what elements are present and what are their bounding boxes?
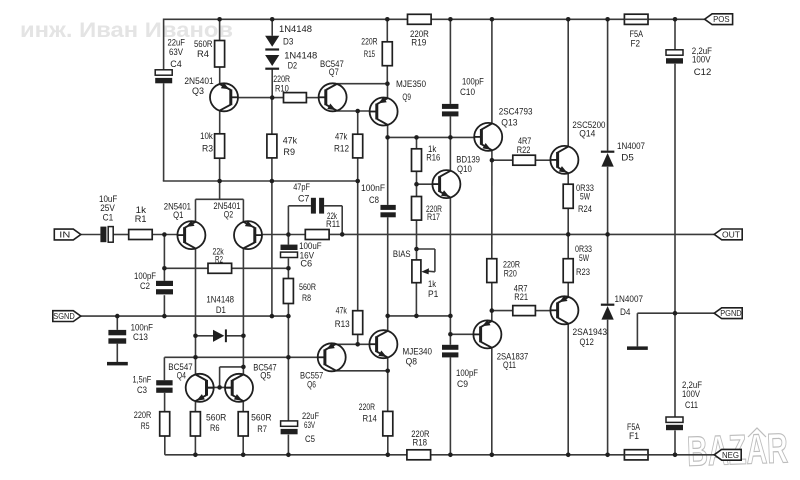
svg-text:R1: R1 bbox=[135, 214, 147, 225]
svg-text:F1: F1 bbox=[629, 431, 639, 442]
svg-text:2SC4793: 2SC4793 bbox=[499, 106, 533, 117]
svg-text:100pF: 100pF bbox=[462, 76, 484, 87]
svg-text:R24: R24 bbox=[578, 204, 592, 215]
svg-text:PGND: PGND bbox=[720, 308, 742, 318]
svg-text:1N4007: 1N4007 bbox=[617, 141, 645, 152]
svg-text:10k: 10k bbox=[200, 131, 213, 142]
svg-text:R16: R16 bbox=[426, 153, 440, 164]
svg-text:C1: C1 bbox=[103, 213, 114, 224]
svg-text:C6: C6 bbox=[300, 258, 312, 269]
svg-text:220R: 220R bbox=[361, 36, 377, 47]
svg-text:Q11: Q11 bbox=[503, 360, 516, 371]
svg-text:R19: R19 bbox=[411, 38, 426, 49]
svg-text:Q2: Q2 bbox=[224, 210, 233, 221]
svg-text:F2: F2 bbox=[631, 38, 641, 49]
svg-text:MJE350: MJE350 bbox=[396, 79, 426, 90]
svg-text:OUT: OUT bbox=[722, 229, 740, 239]
svg-text:Q6: Q6 bbox=[307, 379, 316, 390]
svg-text:C5: C5 bbox=[305, 434, 315, 445]
svg-text:D4: D4 bbox=[620, 307, 631, 318]
svg-text:220R: 220R bbox=[359, 402, 375, 413]
svg-text:R3: R3 bbox=[202, 143, 213, 154]
svg-text:47pF: 47pF bbox=[293, 182, 310, 193]
svg-text:R8: R8 bbox=[302, 293, 311, 304]
svg-text:Q1: Q1 bbox=[173, 210, 183, 221]
svg-text:C2: C2 bbox=[140, 281, 150, 292]
svg-text:Q3: Q3 bbox=[192, 86, 204, 97]
svg-text:POS: POS bbox=[713, 14, 730, 24]
svg-text:560R: 560R bbox=[251, 412, 272, 423]
svg-text:C12: C12 bbox=[694, 67, 712, 78]
svg-text:D5: D5 bbox=[621, 153, 634, 164]
svg-text:Q7: Q7 bbox=[329, 67, 339, 78]
svg-text:220R: 220R bbox=[134, 410, 152, 421]
svg-text:100V: 100V bbox=[692, 54, 711, 65]
svg-text:R12: R12 bbox=[334, 143, 349, 154]
svg-text:R18: R18 bbox=[413, 438, 428, 449]
svg-text:1N4148: 1N4148 bbox=[206, 294, 234, 305]
svg-text:D3: D3 bbox=[283, 36, 293, 47]
svg-text:Q4: Q4 bbox=[177, 371, 186, 382]
svg-text:NEG: NEG bbox=[722, 450, 739, 460]
svg-text:C13: C13 bbox=[133, 332, 148, 343]
svg-text:5W: 5W bbox=[579, 253, 589, 264]
svg-text:C10: C10 bbox=[460, 87, 475, 98]
svg-text:Q12: Q12 bbox=[580, 337, 594, 348]
svg-text:47k: 47k bbox=[283, 136, 298, 147]
svg-text:D1: D1 bbox=[216, 305, 226, 316]
svg-text:C7: C7 bbox=[298, 193, 309, 204]
svg-text:R9: R9 bbox=[283, 147, 295, 158]
svg-text:R23: R23 bbox=[576, 267, 590, 278]
svg-text:Q5: Q5 bbox=[260, 371, 271, 382]
svg-text:63V: 63V bbox=[304, 420, 315, 431]
svg-text:R6: R6 bbox=[210, 423, 220, 434]
svg-text:BIAS: BIAS bbox=[393, 249, 411, 260]
svg-text:47k: 47k bbox=[335, 132, 347, 143]
svg-text:R21: R21 bbox=[514, 292, 528, 303]
svg-text:Q9: Q9 bbox=[402, 92, 411, 103]
svg-text:R10: R10 bbox=[275, 83, 289, 94]
svg-text:C3: C3 bbox=[137, 385, 147, 396]
svg-text:100pF: 100pF bbox=[456, 368, 478, 379]
svg-text:5W: 5W bbox=[580, 191, 590, 202]
svg-text:R22: R22 bbox=[517, 145, 531, 156]
svg-text:Q13: Q13 bbox=[501, 118, 517, 129]
svg-text:Q8: Q8 bbox=[406, 356, 417, 367]
svg-text:63V: 63V bbox=[169, 47, 184, 58]
svg-text:R5: R5 bbox=[141, 421, 150, 432]
svg-text:100nF: 100nF bbox=[361, 183, 385, 194]
svg-text:47k: 47k bbox=[336, 306, 347, 317]
svg-text:1N4007: 1N4007 bbox=[615, 294, 644, 305]
svg-text:D2: D2 bbox=[288, 61, 297, 72]
svg-text:IN: IN bbox=[59, 230, 70, 240]
svg-text:1N4148: 1N4148 bbox=[279, 24, 312, 35]
svg-text:C8: C8 bbox=[369, 195, 379, 206]
svg-text:R14: R14 bbox=[363, 413, 377, 424]
svg-text:R15: R15 bbox=[364, 49, 375, 60]
svg-text:R11: R11 bbox=[326, 219, 340, 230]
svg-text:C4: C4 bbox=[170, 59, 182, 70]
svg-text:Q10: Q10 bbox=[457, 164, 472, 175]
svg-text:C11: C11 bbox=[685, 400, 698, 411]
svg-text:R20: R20 bbox=[504, 268, 517, 279]
svg-text:560R: 560R bbox=[206, 412, 226, 423]
svg-text:560R: 560R bbox=[299, 282, 316, 293]
svg-text:P1: P1 bbox=[428, 289, 438, 300]
svg-text:R17: R17 bbox=[427, 212, 440, 223]
svg-text:SGND: SGND bbox=[53, 311, 75, 321]
svg-text:R7: R7 bbox=[257, 424, 267, 435]
svg-text:C9: C9 bbox=[457, 379, 468, 390]
svg-text:R4: R4 bbox=[197, 49, 209, 60]
svg-text:R13: R13 bbox=[335, 319, 350, 330]
svg-text:R2: R2 bbox=[215, 254, 223, 265]
svg-text:100V: 100V bbox=[682, 389, 701, 400]
svg-text:1,5nF: 1,5nF bbox=[133, 374, 152, 385]
svg-text:Q14: Q14 bbox=[579, 128, 595, 139]
